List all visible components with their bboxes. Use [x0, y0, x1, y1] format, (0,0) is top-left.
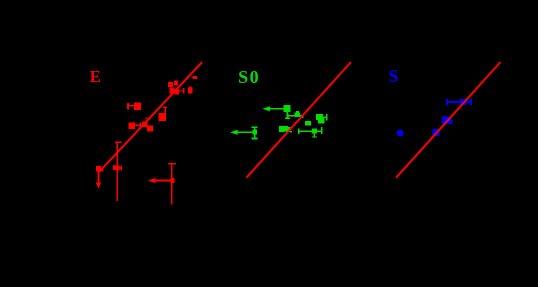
E big marker with vertical bar	[159, 106, 168, 121]
S marker 2: square	[442, 117, 453, 125]
svg-text:E: E	[90, 67, 101, 86]
E cluster squares	[168, 76, 197, 95]
S0 marker B: square, left arrow, vertical error caps	[237, 126, 258, 139]
S fit line	[396, 62, 501, 178]
S0 marker E: double square with right cap	[316, 114, 328, 123]
E marker: square with left error bar (cap)	[127, 103, 141, 110]
S0 fit line	[247, 62, 352, 178]
svg-text:S0: S0	[238, 67, 260, 87]
S0 square D2	[305, 121, 311, 126]
E limit marker: square, x error caps, long lower bar with top cap	[113, 142, 122, 201]
S0 cluster blob C	[279, 126, 292, 133]
S marker 1: square with x error caps	[446, 99, 472, 105]
S0 marker F: square, x error caps, lower error cap	[298, 127, 323, 138]
S marker 3: square	[433, 129, 440, 136]
S0 marker D: square with x error bar	[287, 111, 304, 118]
svg-text:S: S	[389, 66, 399, 86]
E left middle group: two squares with cap	[129, 118, 153, 132]
E upper-limit marker with down arrow	[96, 166, 101, 183]
E fit line	[99, 62, 202, 172]
E right limit marker: left arrow, top cap, long lower bar	[154, 163, 176, 205]
S marker 4: filled circle	[397, 130, 404, 137]
S0 marker A: square, left arrow, lower error with cap	[269, 105, 291, 119]
E tick on line near bottom	[101, 169, 103, 172]
